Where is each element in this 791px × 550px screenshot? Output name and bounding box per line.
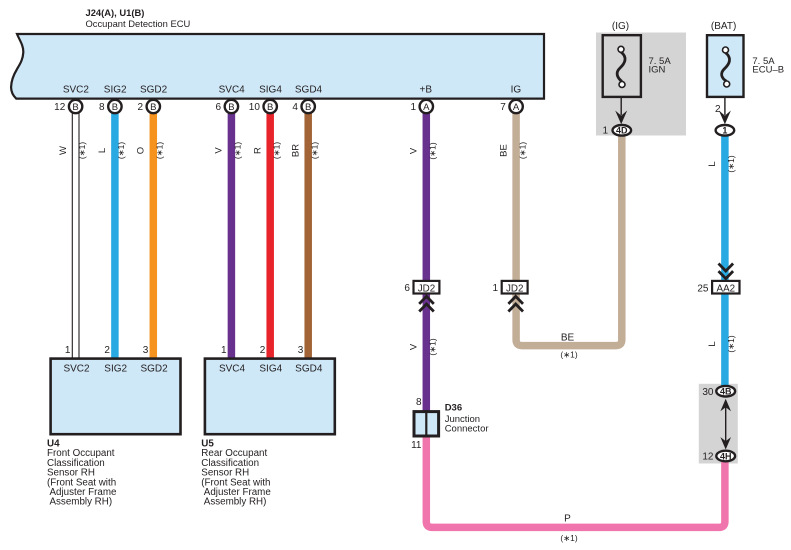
- wire label V (*1) lower +B wire below JD2: [409, 338, 438, 355]
- svg-text:Assembly RH): Assembly RH): [204, 497, 267, 508]
- svg-text:Occupant Detection ECU: Occupant Detection ECU: [86, 18, 191, 29]
- svg-text:(BAT): (BAT): [711, 21, 736, 32]
- connector 1 JD2: [493, 281, 528, 295]
- svg-text:W: W: [58, 146, 69, 155]
- svg-text:4H: 4H: [720, 451, 732, 461]
- svg-text:1: 1: [65, 345, 71, 356]
- svg-text:3: 3: [298, 345, 304, 356]
- svg-text:2: 2: [715, 104, 721, 115]
- double arrow between 4B and 4H: [720, 399, 731, 450]
- fuse element IGN: [617, 46, 625, 87]
- svg-text:4B: 4B: [720, 387, 732, 397]
- svg-text:Assembly RH): Assembly RH): [50, 497, 113, 508]
- svg-text:4D: 4D: [616, 126, 628, 136]
- svg-text:JD2: JD2: [506, 284, 523, 295]
- svg-text:BE: BE: [498, 144, 509, 157]
- wire label P (*1) horizontal run: [560, 514, 577, 544]
- pin 2 circle B (SGD2): [137, 100, 160, 113]
- svg-text:SGD4: SGD4: [295, 364, 323, 375]
- svg-text:SVC4: SVC4: [219, 85, 246, 96]
- wire R (SIG4, red): [266, 108, 274, 358]
- wire label L (*1) upper right blue wire: [707, 155, 736, 172]
- label D36 Junction Connector: [445, 403, 489, 435]
- svg-text:IG: IG: [511, 85, 522, 96]
- svg-text:V: V: [214, 147, 225, 154]
- svg-text:SIG2: SIG2: [104, 85, 127, 96]
- wire label BR (*1): [290, 142, 319, 159]
- chevron arrows below 6 JD2: [419, 296, 434, 311]
- svg-text:1: 1: [493, 283, 499, 294]
- wire L (BAT fuse to 4B, light blue): [721, 136, 729, 386]
- svg-text:2: 2: [137, 102, 143, 113]
- svg-text:2: 2: [104, 345, 110, 356]
- connector 12 4H oval: [702, 451, 735, 463]
- svg-text:B: B: [267, 102, 273, 113]
- connector 30 4B oval: [702, 386, 735, 398]
- svg-text:SIG4: SIG4: [259, 364, 282, 375]
- svg-text:SGD2: SGD2: [140, 85, 168, 96]
- svg-text:1: 1: [410, 102, 416, 113]
- svg-text:6: 6: [404, 283, 410, 294]
- pin 6 circle B (SVC4): [216, 100, 239, 113]
- svg-text:(∗1): (∗1): [428, 338, 438, 355]
- svg-text:SVC2: SVC2: [63, 364, 90, 375]
- svg-text:SIG4: SIG4: [259, 85, 282, 96]
- chevron arrows below 1 JD2: [508, 296, 523, 311]
- wire label V (*1): [214, 142, 243, 159]
- svg-text:V: V: [409, 147, 420, 154]
- svg-text:SGD4: SGD4: [295, 85, 323, 96]
- connector 6 JD2: [404, 281, 439, 295]
- svg-text:R: R: [252, 147, 263, 154]
- svg-text:D36: D36: [445, 403, 462, 414]
- wire BR (SGD4, brown): [304, 108, 312, 358]
- svg-text:AA2: AA2: [717, 284, 736, 295]
- svg-text:L: L: [707, 161, 718, 166]
- svg-text:30: 30: [702, 387, 714, 398]
- svg-text:12: 12: [54, 102, 66, 113]
- svg-text:(∗1): (∗1): [233, 142, 243, 159]
- wire O (SGD2, orange): [150, 108, 158, 358]
- svg-text:P: P: [564, 514, 571, 525]
- wire L (SIG2, light blue): [111, 108, 119, 358]
- svg-text:(∗1): (∗1): [726, 335, 736, 352]
- svg-text:SIG2: SIG2: [104, 364, 127, 375]
- svg-text:11: 11: [411, 440, 422, 451]
- connector 1 4D oval: [602, 125, 631, 137]
- svg-text:(∗1): (∗1): [116, 142, 126, 159]
- svg-text:(IG): (IG): [612, 21, 629, 32]
- svg-text:7: 7: [500, 102, 506, 113]
- fuse box IGN 7.5A: [603, 35, 641, 97]
- svg-text:J24(A), U1(B): J24(A), U1(B): [86, 7, 145, 18]
- svg-text:1: 1: [221, 345, 227, 356]
- svg-text:O: O: [136, 147, 147, 154]
- svg-text:L: L: [707, 341, 718, 346]
- svg-text:B: B: [112, 102, 118, 113]
- svg-text:(∗1): (∗1): [517, 142, 527, 159]
- label U4 Front Occupant Classification Sensor RH: [47, 439, 117, 508]
- wire BE (IG pin to 4D fuse connector, beige): [516, 108, 622, 346]
- svg-text:L: L: [97, 148, 108, 153]
- wire P (D36 to 4H, pink): [426, 436, 725, 527]
- wire label L (*1): [97, 142, 126, 159]
- svg-text:2: 2: [260, 345, 266, 356]
- pin 4 circle B (SGD4): [292, 100, 315, 113]
- svg-text:Connector: Connector: [445, 424, 489, 435]
- svg-text:10: 10: [249, 102, 261, 113]
- fuse box ECU-B 7.5A: [707, 35, 744, 97]
- pin 10 circle B (SIG4): [249, 100, 277, 113]
- svg-text:(∗1): (∗1): [428, 142, 438, 159]
- svg-text:BR: BR: [290, 144, 301, 157]
- svg-text:B: B: [72, 102, 78, 113]
- sensor box U4: [51, 359, 181, 435]
- svg-text:25: 25: [697, 284, 709, 295]
- wire V (+B to D36, violet): [423, 108, 431, 411]
- pin 12 circle B (SVC2): [54, 100, 82, 113]
- svg-text:SVC2: SVC2: [63, 85, 90, 96]
- wire label BE (*1) on IG wire: [498, 142, 527, 159]
- label 7.5A IGN: [649, 56, 672, 76]
- Occupant Detection ECU box J24(A), U1(B): [11, 34, 544, 99]
- svg-text:1: 1: [602, 126, 608, 137]
- svg-text:(∗1): (∗1): [560, 350, 577, 360]
- svg-text:3: 3: [143, 345, 149, 356]
- arrow from IGN fuse to 4D: [615, 98, 627, 124]
- wire label R (*1): [252, 142, 281, 159]
- wire label BE (*1) horizontal run: [560, 333, 577, 360]
- svg-text:1: 1: [722, 126, 727, 136]
- wire label V (*1) on +B wire: [409, 142, 438, 159]
- gray panel behind 4B/4H connectors: [699, 384, 738, 464]
- wire label W (*1): [58, 142, 87, 159]
- svg-text:V: V: [409, 343, 420, 350]
- svg-text:SVC4: SVC4: [219, 364, 246, 375]
- connector 25 AA2: [697, 281, 739, 295]
- sensor box U5: [205, 359, 335, 435]
- label U5 Rear Occupant Classification Sensor RH: [201, 439, 271, 508]
- svg-text:ECU–B: ECU–B: [752, 65, 784, 76]
- svg-text:(∗1): (∗1): [309, 142, 319, 159]
- svg-text:(∗1): (∗1): [560, 533, 577, 543]
- pin 1 circle A (+B): [410, 100, 433, 113]
- chevron arrows above 25 AA2: [719, 264, 734, 279]
- svg-text:B: B: [305, 102, 311, 113]
- svg-text:+B: +B: [420, 85, 433, 96]
- svg-text:4: 4: [292, 102, 298, 113]
- svg-text:(∗1): (∗1): [77, 142, 87, 159]
- pin 7 circle A (IG): [500, 100, 523, 113]
- connector 1 oval (BAT): [716, 125, 735, 136]
- pin 8 circle B (SIG2): [99, 100, 122, 113]
- svg-text:B: B: [150, 102, 156, 113]
- junction connector D36: [414, 410, 439, 437]
- svg-text:6: 6: [216, 102, 222, 113]
- svg-text:A: A: [513, 102, 520, 113]
- svg-text:8: 8: [99, 102, 105, 113]
- svg-text:IGN: IGN: [649, 65, 666, 76]
- wire label O (*1): [136, 142, 165, 159]
- gray panel behind IG fuse: [596, 33, 686, 136]
- svg-text:8: 8: [416, 397, 422, 408]
- svg-text:(∗1): (∗1): [726, 155, 736, 172]
- wire V (SVC4, violet): [228, 108, 236, 358]
- svg-text:JD2: JD2: [418, 284, 435, 295]
- svg-text:B: B: [228, 102, 234, 113]
- fuse element ECU-B: [722, 47, 730, 87]
- svg-text:12: 12: [702, 452, 714, 463]
- arrow from ECU-B fuse to connector 1: [715, 98, 731, 124]
- svg-text:A: A: [423, 102, 430, 113]
- svg-text:SGD2: SGD2: [140, 364, 168, 375]
- wire W (SVC2, white wire): [72, 108, 79, 358]
- svg-text:BE: BE: [561, 333, 575, 344]
- svg-text:(∗1): (∗1): [155, 142, 165, 159]
- wire label L (*1) lower right blue wire: [707, 335, 736, 352]
- label 7.5A ECU-B: [752, 56, 784, 76]
- svg-text:(∗1): (∗1): [271, 142, 281, 159]
